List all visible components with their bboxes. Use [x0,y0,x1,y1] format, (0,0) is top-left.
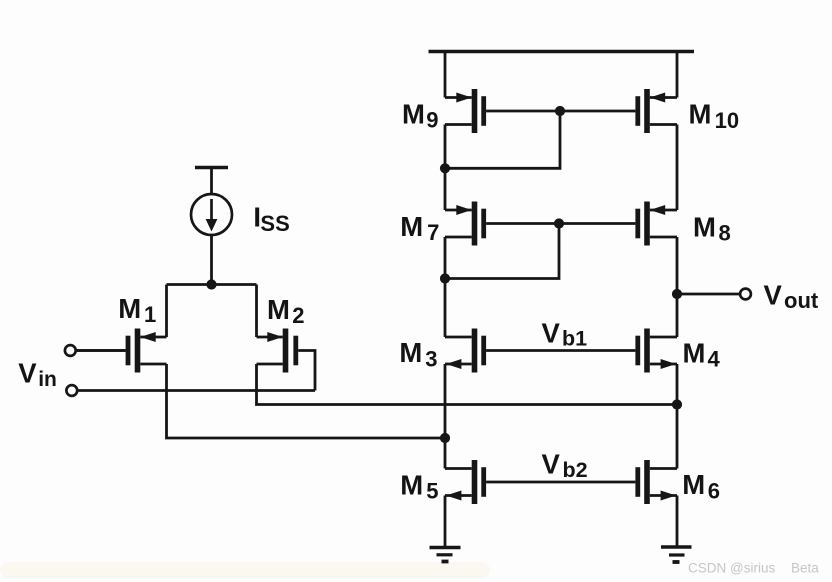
transistor M8 [635,202,677,246]
wire M9 gate-drain diode connection [445,111,560,168]
svg-text:2: 2 [292,303,304,328]
svg-text:9: 9 [426,108,438,133]
wire right column VDD to M10 source [676,52,679,98]
wire M5 source to ground [444,496,447,547]
wire M2 gate down to Vin- line [298,351,315,391]
wire Vb2 gate net M5-M6 [486,481,635,484]
node M7/M8 gate junction [554,218,564,228]
transistor M10 [635,89,677,133]
svg-text:V: V [542,318,561,349]
wire node B: M2 drain to M4 source [257,364,678,405]
svg-text:M: M [267,294,290,325]
svg-text:3: 3 [425,346,437,371]
svg-text:M: M [402,99,425,130]
node M7 drain junction [440,273,450,283]
svg-text:8: 8 [719,221,731,246]
wire M2 source to tail [255,285,258,338]
svg-text:M: M [400,469,423,500]
transistor M1 [76,329,167,373]
node tail junction [206,279,216,289]
svg-text:5: 5 [426,479,438,504]
wire M7 gate-drain diode connection [445,224,559,279]
ISS arrow head [206,219,218,232]
transistor M5 [445,460,486,504]
svg-text:M: M [399,337,422,368]
svg-text:M: M [683,338,706,369]
wire M9 drain to M7 source [444,125,447,211]
transistor M2 [257,329,299,373]
terminal Vin+ [65,345,76,356]
svg-text:7: 7 [427,220,439,245]
svg-text:V: V [542,449,561,480]
wire M1 source to tail [165,285,168,338]
svg-text:in: in [38,368,57,391]
transistor M3 [445,329,486,373]
svg-text:M: M [400,211,423,242]
svg-text:1: 1 [144,302,156,327]
wire M7-M8 gate net [486,222,635,225]
wire M7 drain to M3 drain [444,237,447,337]
svg-text:M: M [693,212,716,243]
svg-text:SS: SS [260,211,289,236]
svg-text:b2: b2 [563,458,588,482]
node A junction [440,433,450,443]
wire Vb1 gate net M3-M4 [486,349,635,352]
wire left column VDD to M9 source [444,52,447,98]
svg-text:V: V [18,358,37,389]
wire M4 source to M6 drain [676,364,679,469]
node M9 drain junction [440,163,450,173]
transistor M7 [445,202,486,246]
svg-text:@sirius: @sirius [730,561,775,576]
svg-text:b1: b1 [562,327,587,351]
svg-text:M: M [689,99,712,130]
node output junction [672,289,682,299]
svg-text:out: out [784,288,819,313]
ground under M5 [430,548,461,562]
ISS supply T-bar [195,166,228,169]
ISS top stem [210,168,213,195]
wire M9-M10 gate net [486,110,635,113]
svg-text:M: M [682,469,705,500]
VDD supply rail [429,50,695,53]
svg-text:CSDN: CSDN [688,561,726,576]
transistor M6 [635,460,677,504]
ground under M6 [661,547,692,562]
ISS bottom stem to tail node [210,235,213,285]
svg-text:10: 10 [715,108,739,133]
svg-text:4: 4 [708,347,721,372]
ISS circle [191,194,232,235]
node M9/M10 gate junction [555,106,565,116]
wire M6 source to ground [676,496,679,547]
wire M10 drain to M8 source [676,125,679,211]
transistor M9 [445,89,486,133]
wire Vin+ to M1 gate [76,349,126,352]
wire output node to terminal [677,293,740,296]
node B junction [672,399,682,409]
wire node A: M1 drain to M3 source [167,364,446,438]
svg-text:V: V [764,280,783,311]
wire M3 source to M5 drain [444,364,447,469]
current source ISS [191,168,232,285]
faint scan smudge bottom-left [0,562,490,578]
wire tail rail M1/M2 sources [167,283,257,286]
svg-text:6: 6 [708,479,720,504]
wire M8 drain to M4 drain [676,237,679,337]
svg-text:M: M [118,293,141,324]
terminal Vin- [66,385,77,396]
terminal Vout [740,289,751,300]
wire Vin- input line [77,389,315,392]
transistor M4 [635,329,677,373]
ISS arrow shaft [210,199,213,221]
svg-text:Beta: Beta [791,561,819,576]
